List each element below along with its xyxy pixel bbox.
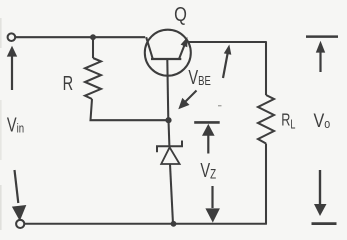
label Vo <box>314 110 331 132</box>
VBE up arrow (to emitter wire) <box>223 45 231 79</box>
transistor Q circle <box>145 30 191 76</box>
wire: bottom rail <box>24 223 267 225</box>
input terminal (bottom left) <box>16 220 24 228</box>
Vo bottom bar <box>312 222 337 225</box>
svg-text:R: R <box>63 72 74 95</box>
junction dot: base / R / zener node <box>165 117 171 123</box>
zener diode bottom lead <box>170 164 173 224</box>
zener diode cathode bar with bent ends <box>157 141 182 153</box>
Vo down arrow <box>314 170 327 216</box>
wire: R branch from top rail <box>92 37 94 58</box>
Vin bottom down arrow <box>12 170 26 221</box>
Vin up arrow <box>7 46 17 90</box>
resistor RL zigzag <box>258 95 274 144</box>
Vo top bar <box>306 35 338 38</box>
label R <box>63 72 74 95</box>
svg-text:Q: Q <box>174 2 187 25</box>
label VBE <box>188 66 211 89</box>
resistor R zigzag <box>85 58 101 99</box>
Vo up arrow <box>316 41 325 72</box>
VZ top tick bar <box>194 121 220 124</box>
wire: right vertical lower <box>265 144 267 224</box>
VZ down arrow <box>205 186 220 223</box>
zener diode top lead <box>167 120 170 146</box>
junction dot: top rail / R <box>90 34 96 40</box>
label Vin <box>7 113 24 136</box>
zener diode triangle (anode) <box>161 147 179 164</box>
label RL <box>281 111 295 132</box>
label VZ <box>200 159 216 182</box>
input terminal (top left) <box>8 33 16 41</box>
scan speck <box>218 105 222 106</box>
wire: right vertical upper <box>265 41 267 95</box>
wire: top rail left (input terminal to Q collector) <box>16 36 146 38</box>
wire: top rail right (Q emitter to right corner) <box>188 41 266 43</box>
transistor Q collector lead <box>146 37 153 59</box>
scan edge artifact left <box>0 18 2 230</box>
VZ up arrow <box>202 124 215 154</box>
label Q <box>174 2 187 25</box>
VBE down-left arrow (to base node) <box>178 91 196 110</box>
transistor Q base bar <box>151 58 181 60</box>
wire: R bottom lead and horizontal to zener node <box>91 99 169 120</box>
transistor Q base lead down to node <box>167 59 168 120</box>
junction dot: zener / bottom rail <box>171 221 177 227</box>
transistor Q emitter lead with arrow <box>179 37 187 59</box>
